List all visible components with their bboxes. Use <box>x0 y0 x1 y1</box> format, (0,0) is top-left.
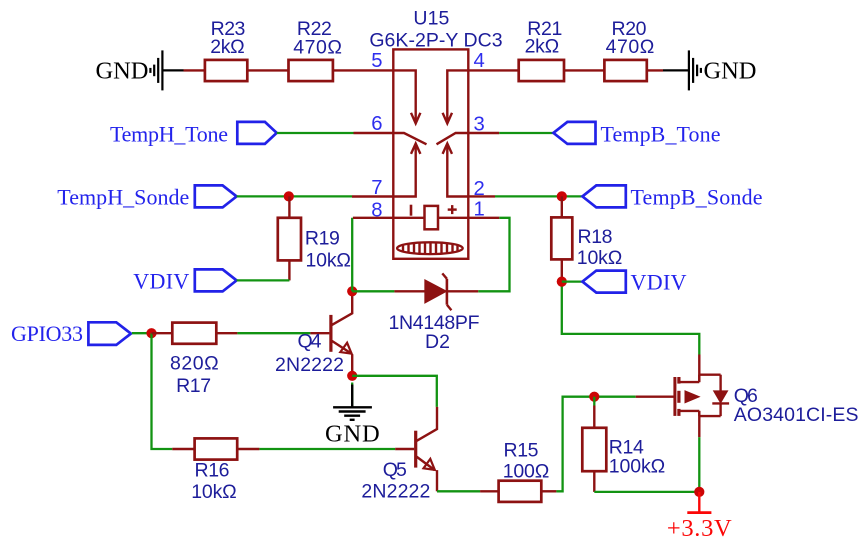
wire TempH_Tone to U15 pin 6 <box>277 132 354 134</box>
wire junction to D2 anode <box>352 290 394 292</box>
svg-text:VDIV: VDIV <box>133 269 189 294</box>
transistor Q4 <box>310 291 352 376</box>
wire Q6 source down to +3.3V <box>698 437 700 492</box>
resistor R23 <box>205 60 247 81</box>
svg-text:100kΩ: 100kΩ <box>609 455 665 477</box>
svg-text:R16: R16 <box>195 460 230 482</box>
junction node at Q4 collector / D2 anode <box>347 286 357 296</box>
svg-text:6: 6 <box>371 113 382 135</box>
svg-text:R19: R19 <box>305 228 340 250</box>
junction node at R18 bottom / VDIV right <box>557 277 567 287</box>
relay U15 internal pin4 drop with down arrow <box>443 70 469 123</box>
resistor R21 <box>519 60 564 81</box>
svg-text:5: 5 <box>371 50 382 72</box>
svg-text:2N2222: 2N2222 <box>361 481 430 503</box>
pin 8 stub of U15 <box>353 217 393 219</box>
junction node at TempH_Sonde / R19 <box>284 191 294 201</box>
hierarchical label TempB_Tone <box>553 122 595 144</box>
resistor R17 <box>152 323 238 344</box>
relay U15 contact left (pin 6) <box>393 133 426 144</box>
wire GND-left to R23 <box>184 69 205 71</box>
svg-text:R17: R17 <box>176 375 211 397</box>
svg-text:G6K-2P-Y DC3: G6K-2P-Y DC3 <box>369 29 502 51</box>
svg-text:R15: R15 <box>504 440 539 462</box>
pin 6 stub of U15 <box>354 132 394 134</box>
junction node at GPIO33 <box>146 328 156 338</box>
svg-text:470Ω: 470Ω <box>293 37 342 59</box>
svg-text:D2: D2 <box>425 331 450 353</box>
wire R15 up to Q6 gate <box>556 397 635 492</box>
junction node at Q4 emitter / GND <box>347 371 357 381</box>
svg-text:Q4: Q4 <box>298 331 322 353</box>
hierarchical label VDIV left <box>195 269 237 291</box>
relay U15 coil core rectangle <box>425 206 439 229</box>
diode D2 <box>394 273 478 310</box>
svg-text:R18: R18 <box>578 226 613 248</box>
svg-text:2N2222: 2N2222 <box>275 354 344 376</box>
resistor R15 <box>480 481 556 502</box>
resistor R22 <box>289 60 333 81</box>
hierarchical label VDIV right <box>582 271 625 293</box>
wire Q6 drain up and across to R18 branch <box>562 282 700 355</box>
resistor R20 <box>604 60 646 81</box>
junction node at +3.3V <box>694 487 704 497</box>
resistor R19 <box>278 196 301 280</box>
wire TempH_Sonde to U15 pin 7 <box>237 195 352 197</box>
mosfet Q6 <box>636 355 729 438</box>
svg-text:+3.3V: +3.3V <box>667 515 732 542</box>
svg-text:TempB_Tone: TempB_Tone <box>601 122 721 147</box>
ground GND bottom symbol <box>333 383 372 420</box>
ground GND right symbol <box>663 50 701 90</box>
wire Q4 collector up to U15 pin 8 <box>351 218 353 291</box>
relay U15 internal pin2 riser with up arrow <box>443 144 469 197</box>
wire Q4 emitter junction to Q5 collector <box>352 376 437 407</box>
wire R17 to Q4 base <box>237 332 310 334</box>
svg-text:TempH_Tone: TempH_Tone <box>110 122 228 147</box>
wire GPIO33 to junction <box>132 332 152 334</box>
wire R18 junction to VDIV right <box>562 280 583 282</box>
junction node at TempB_Sonde / R18 <box>557 191 567 201</box>
svg-text:10kΩ: 10kΩ <box>191 481 237 503</box>
wire R21 to R20 <box>564 69 604 71</box>
ground GND left symbol <box>150 50 183 90</box>
pin 7 stub of U15 <box>352 195 393 197</box>
relay U15 body <box>393 49 468 258</box>
svg-text:820Ω: 820Ω <box>170 352 219 374</box>
svg-text:2kΩ: 2kΩ <box>525 35 560 57</box>
wire VDIV left to R19 <box>237 279 290 281</box>
svg-text:Q5: Q5 <box>383 459 407 481</box>
resistor R16 <box>172 438 259 459</box>
wire R23 to R22 <box>247 69 288 71</box>
wire R20 to GND right <box>647 69 663 71</box>
svg-text:TempH_Sonde: TempH_Sonde <box>57 184 189 209</box>
transistor Q5 <box>395 407 437 491</box>
resistor R14 <box>582 406 606 492</box>
wire Q5 emitter to R15 <box>437 490 480 492</box>
wire U15 pin 3 to TempB_Tone <box>499 132 553 134</box>
svg-text:10kΩ: 10kΩ <box>577 247 623 269</box>
svg-text:2kΩ: 2kΩ <box>210 36 245 58</box>
svg-text:GPIO33: GPIO33 <box>11 321 83 346</box>
wire R14 bottom to +3.3V junction <box>594 491 699 493</box>
relay U15 coil winding ellipse <box>397 242 463 254</box>
hierarchical label TempH_Sonde <box>195 185 237 207</box>
svg-text:470Ω: 470Ω <box>606 36 655 58</box>
wire R22 to U15 pin 5 <box>333 69 393 71</box>
relay U15 minus polarity mark <box>410 205 413 216</box>
wire D2 cathode to U15 pin 1 <box>478 218 509 291</box>
svg-text:100Ω: 100Ω <box>503 460 550 482</box>
relay U15 plus polarity mark <box>448 205 457 214</box>
svg-text:VDIV: VDIV <box>631 270 687 295</box>
wire U15 pin 2 to TempB_Sonde <box>495 195 582 197</box>
relay U15 coil bar line pin8 side <box>393 217 424 219</box>
wire U15 pin 4 to R21 <box>468 69 518 71</box>
pin 3 stub of U15 <box>468 132 499 134</box>
hierarchical label TempH_Tone <box>237 122 276 144</box>
svg-text:TempB_Sonde: TempB_Sonde <box>631 184 763 209</box>
pin 1 stub of U15 <box>468 217 499 219</box>
relay U15 internal pin7 riser with up arrow <box>393 144 420 197</box>
svg-text:4: 4 <box>474 50 485 72</box>
wire GPIO33 junction down to R16 row <box>152 333 173 449</box>
junction node at R14 top <box>589 392 599 402</box>
power symbol +3.3V <box>687 492 711 513</box>
wire R16 to Q5 base <box>259 448 395 450</box>
relay U15 internal pin5 drop with down arrow <box>393 70 420 123</box>
svg-text:GND: GND <box>704 57 757 84</box>
hierarchical label TempB_Sonde <box>582 185 625 207</box>
svg-text:10kΩ: 10kΩ <box>306 250 352 272</box>
relay U15 coil bar line pin1 side <box>438 217 468 219</box>
svg-text:U15: U15 <box>413 7 449 29</box>
hierarchical label GPIO33 <box>88 322 130 345</box>
svg-text:GND: GND <box>96 57 149 84</box>
relay U15 contact right (pin 3) <box>437 133 469 144</box>
wire junction stub to R14 <box>593 397 595 406</box>
svg-text:GND: GND <box>325 421 380 448</box>
pin 2 stub of U15 <box>468 195 495 197</box>
resistor R18 <box>551 196 572 281</box>
svg-text:AO3401CI-ES: AO3401CI-ES <box>734 404 859 426</box>
